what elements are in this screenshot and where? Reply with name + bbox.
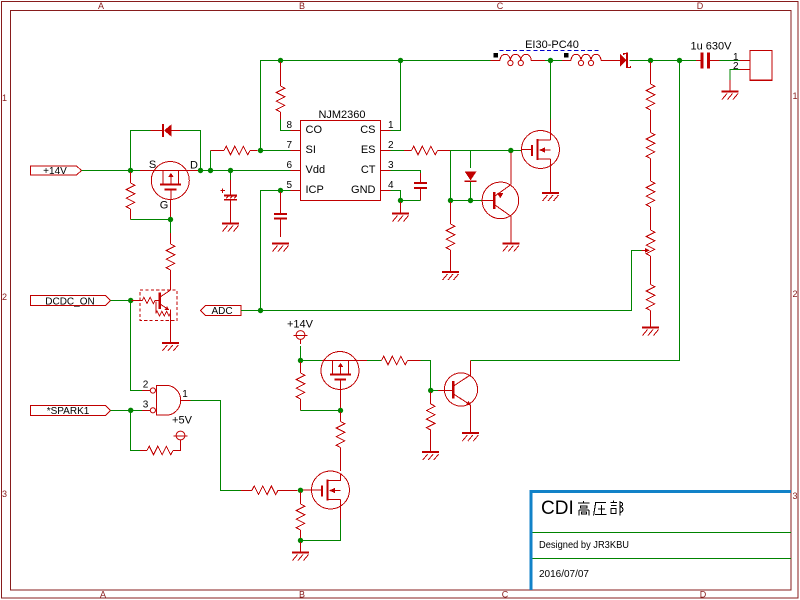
capacitor C4 output bbox=[691, 41, 733, 69]
node ICP junction bbox=[278, 188, 283, 193]
node Vdd junction 210 bbox=[208, 168, 213, 173]
ground Q4 emitter bbox=[162, 343, 179, 351]
op-amp U1 NJM2360 body bbox=[301, 109, 381, 201]
svg-text:B: B bbox=[299, 590, 305, 600]
ground J1 bbox=[722, 80, 739, 100]
transistor Q4 digital NPN bbox=[132, 290, 177, 343]
capacitor C1 electrolytic bbox=[221, 171, 238, 224]
resistor R11 pullup bbox=[140, 440, 181, 455]
resistor R17 gate pulldown bbox=[296, 492, 305, 538]
transformer T1 polarity dot secondary bbox=[564, 53, 569, 57]
inductor L2 secondary bbox=[562, 54, 620, 65]
node GND junction bbox=[398, 198, 403, 203]
transistor Q3 N-MOSFET main bbox=[522, 120, 560, 193]
svg-text:3: 3 bbox=[2, 489, 7, 499]
node S2 junction bbox=[298, 358, 303, 363]
wire ES node right to gate bbox=[451, 150, 522, 152]
resistor R3 CO pullup bbox=[276, 62, 285, 120]
wire CS to rail bbox=[391, 61, 401, 131]
ground elec cap bbox=[222, 224, 239, 232]
svg-text:3: 3 bbox=[143, 400, 149, 411]
node cap junction 230 bbox=[228, 168, 233, 173]
capacitor C3 CT bbox=[414, 173, 427, 201]
wire HV rail bbox=[648, 60, 696, 62]
power +14V bottom bbox=[287, 319, 314, 345]
wire D to Vdd bbox=[201, 170, 291, 172]
node tap junction bbox=[548, 58, 553, 63]
ground R5 bbox=[442, 272, 459, 280]
svg-text:C: C bbox=[502, 590, 509, 600]
svg-text:D: D bbox=[190, 160, 198, 172]
svg-text:DCDC_ON: DCDC_ON bbox=[45, 296, 94, 307]
svg-text:SI: SI bbox=[306, 144, 316, 156]
pin 7 SI bbox=[286, 140, 315, 156]
resistor R5 to ground bbox=[446, 202, 455, 272]
svg-text:7: 7 bbox=[286, 140, 292, 151]
svg-text:1: 1 bbox=[2, 93, 7, 103]
svg-text:3: 3 bbox=[792, 491, 797, 501]
svg-text:CDI: CDI bbox=[541, 498, 574, 519]
wire SPARK1 bbox=[111, 409, 143, 411]
svg-text:2: 2 bbox=[2, 292, 7, 302]
wire +14V to S junction bbox=[82, 170, 141, 172]
svg-text:1: 1 bbox=[182, 389, 188, 400]
resistor R15 base-gnd bbox=[426, 392, 435, 452]
wire base net bbox=[451, 200, 482, 202]
ground Q2 collector bbox=[502, 244, 519, 252]
potentiometer RV1 bbox=[642, 230, 655, 285]
resistor R10 Q1-gate drive bbox=[166, 220, 175, 291]
net label ADC bbox=[201, 306, 242, 318]
svg-text:CO: CO bbox=[306, 124, 323, 136]
svg-text:2: 2 bbox=[733, 61, 739, 72]
node HV junction 2 bbox=[677, 58, 682, 63]
svg-text:GND: GND bbox=[351, 184, 376, 196]
ground U1 bbox=[392, 202, 409, 222]
wire base bbox=[431, 390, 438, 392]
inductor L1 primary bbox=[491, 54, 546, 65]
resistor R2 SI divider bbox=[211, 146, 258, 170]
resistor R9 divider bottom bbox=[646, 285, 655, 328]
title text CDI (high voltage section) bbox=[541, 498, 574, 519]
pin 4 GND bbox=[351, 180, 394, 196]
wire NAND out bbox=[191, 400, 242, 490]
wire HV sense rail bbox=[471, 61, 680, 361]
diode D2 clamp bbox=[465, 151, 477, 201]
pin 5 ICP bbox=[286, 180, 323, 196]
svg-text:Designed by JR3KBU: Designed by JR3KBU bbox=[539, 539, 629, 551]
svg-text:2: 2 bbox=[388, 140, 394, 151]
pin 3 CT bbox=[361, 160, 394, 176]
wire ADC to junction bbox=[241, 310, 261, 312]
wire Q7 source bbox=[301, 520, 341, 541]
svg-text:*SPARK1: *SPARK1 bbox=[47, 406, 90, 417]
ground source bbox=[292, 542, 309, 561]
ground Q3 source bbox=[542, 193, 559, 201]
wire cap to connector bbox=[720, 60, 741, 62]
svg-text:+14V: +14V bbox=[287, 319, 314, 331]
wire diode branch left vertical bbox=[131, 131, 151, 171]
power +5V bbox=[172, 415, 193, 445]
connector J1 bbox=[733, 51, 772, 81]
svg-text:EI30-PC40: EI30-PC40 bbox=[525, 39, 579, 51]
svg-text:A: A bbox=[100, 590, 106, 600]
node S junction bbox=[128, 168, 133, 173]
title block border bbox=[530, 490, 792, 590]
wire SI to pin7 bbox=[261, 150, 291, 152]
wire diode to HV node bbox=[630, 60, 649, 62]
wire collector bbox=[470, 361, 472, 375]
node source junction bbox=[298, 538, 303, 543]
node HV junction bbox=[648, 58, 653, 63]
svg-text:2016/07/07: 2016/07/07 bbox=[539, 568, 589, 580]
svg-text:D: D bbox=[697, 1, 704, 11]
node SPARK junction bbox=[128, 408, 133, 413]
wire +14V to S2 bbox=[300, 346, 302, 361]
node gate junction bbox=[508, 148, 513, 153]
resistor R6 divider top bbox=[646, 62, 655, 133]
pin 8 CO bbox=[286, 120, 322, 136]
transistor Q1 P-MOSFET bbox=[140, 162, 200, 220]
svg-text:B: B bbox=[299, 1, 305, 11]
pin 2 ES bbox=[361, 140, 394, 156]
node gate3 junction bbox=[298, 488, 303, 493]
transformer T1 coupling line bbox=[499, 50, 601, 52]
wire tap bbox=[545, 60, 562, 62]
gate U2 NAND bbox=[142, 385, 191, 415]
transistor Q5 P-MOSFET bbox=[321, 352, 367, 409]
svg-text:1u 630V: 1u 630V bbox=[691, 41, 733, 53]
wire S2 bbox=[301, 360, 323, 362]
wire SI junction up to top rail bbox=[261, 61, 491, 151]
svg-text:+5V: +5V bbox=[172, 415, 193, 427]
transformer T1 polarity dot primary bbox=[494, 53, 499, 57]
pin 6 Vdd bbox=[286, 160, 325, 176]
capacitor C2 ICP bbox=[274, 192, 287, 237]
wire Q5 drain bbox=[367, 360, 381, 362]
transistor Q2 PNP bbox=[482, 153, 519, 244]
wire ES node down bbox=[450, 151, 452, 201]
wire drain to transformer tap bbox=[550, 61, 552, 120]
svg-text:5: 5 bbox=[286, 180, 292, 191]
wire R3 to pin8 bbox=[281, 120, 291, 131]
node CS rail junction bbox=[398, 58, 403, 63]
wire base branch bbox=[420, 361, 430, 391]
svg-text:CS: CS bbox=[360, 124, 375, 136]
svg-text:C: C bbox=[497, 1, 504, 11]
svg-text:+14V: +14V bbox=[43, 166, 67, 177]
svg-text:G: G bbox=[160, 200, 169, 212]
svg-text:ICP: ICP bbox=[306, 184, 324, 196]
resistor R8 divider bbox=[646, 181, 655, 230]
node ADC junction bbox=[258, 308, 263, 313]
diode D3 rectifier schottky bbox=[620, 53, 631, 69]
wire GND pin down bbox=[391, 191, 401, 201]
transistor Q7 N-MOSFET low bbox=[303, 471, 350, 520]
node DCDC junction bbox=[128, 298, 133, 303]
wire diode to D node bbox=[180, 131, 201, 171]
wire ICP stub bbox=[261, 190, 291, 192]
net label DCDC_ON bbox=[31, 296, 111, 308]
node rail junction 280 bbox=[278, 58, 283, 63]
pin 1 CS bbox=[360, 120, 394, 136]
svg-text:Vdd: Vdd bbox=[306, 164, 326, 176]
resistor R7 divider bbox=[646, 133, 655, 182]
svg-text:4: 4 bbox=[388, 180, 394, 191]
svg-text:ES: ES bbox=[361, 144, 376, 156]
wire DCDC down to gate2 bbox=[131, 301, 142, 391]
svg-text:2: 2 bbox=[143, 380, 149, 391]
node base junction bbox=[428, 388, 433, 393]
ground R15 bbox=[422, 452, 439, 460]
node diode junction bbox=[468, 198, 473, 203]
svg-text:CT: CT bbox=[361, 164, 376, 176]
ground Q6 emitter bbox=[462, 433, 479, 441]
node G junction bbox=[168, 217, 173, 222]
wire ES to resistor bbox=[391, 150, 405, 152]
net label *SPARK1 bbox=[31, 406, 111, 418]
wire DCDC_ON bbox=[111, 300, 143, 302]
ground divider bbox=[642, 328, 659, 336]
node D junction bbox=[198, 168, 203, 173]
wire wiper to ADC bbox=[261, 250, 642, 310]
diode D1 bypass bbox=[151, 124, 181, 137]
net label +14V bbox=[31, 166, 82, 177]
wire SPARK down to pullup bbox=[131, 410, 140, 450]
ground ICP cap bbox=[272, 244, 289, 252]
title CJK glyphs bbox=[578, 501, 623, 516]
wire pin2 to ground bbox=[730, 70, 740, 81]
resistor R13 gate2-source bbox=[296, 362, 305, 411]
transistor Q6 NPN bbox=[438, 373, 478, 433]
node gate2 junction bbox=[338, 408, 343, 413]
resistor R12 gate3 bbox=[241, 486, 298, 495]
svg-text:ADC: ADC bbox=[211, 306, 232, 317]
wire R1 bottom to G node bbox=[131, 219, 171, 221]
svg-text:A: A bbox=[98, 1, 104, 11]
svg-text:3: 3 bbox=[388, 160, 394, 171]
wire CT branch bbox=[391, 171, 421, 174]
svg-text:S: S bbox=[149, 159, 156, 171]
resistor R1 gate-source bbox=[126, 172, 135, 220]
resistor R14 base feed bbox=[381, 356, 420, 365]
svg-text:6: 6 bbox=[286, 160, 292, 171]
svg-text:2: 2 bbox=[792, 289, 797, 299]
wire ICP net bbox=[261, 191, 291, 311]
svg-text:1: 1 bbox=[792, 91, 797, 101]
svg-text:8: 8 bbox=[286, 120, 292, 131]
wire R13 to gate2 node bbox=[301, 410, 341, 412]
node ES lower junction bbox=[448, 198, 453, 203]
svg-text:D: D bbox=[700, 590, 707, 600]
resistor R4 ES bbox=[404, 146, 451, 155]
node SI junction bbox=[258, 148, 263, 153]
resistor R16 gate chain bbox=[336, 412, 345, 471]
svg-text:1: 1 bbox=[388, 120, 394, 131]
svg-text:NJM2360: NJM2360 bbox=[318, 109, 365, 121]
wire CT cap bottom to gnd node bbox=[401, 200, 421, 202]
